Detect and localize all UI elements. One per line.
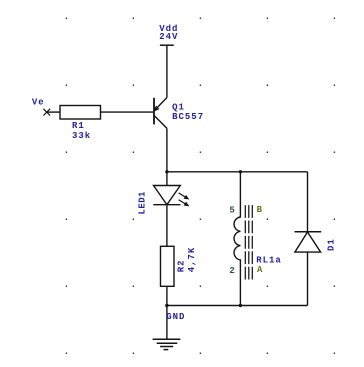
transistor Q1 xyxy=(154,98,167,129)
power symbol Vdd xyxy=(160,44,174,46)
port Ve xyxy=(43,109,50,116)
resistor R2 xyxy=(161,246,175,286)
svg-text:24V: 24V xyxy=(159,32,178,42)
node relay bottom junction xyxy=(239,304,242,307)
svg-text:4,7K: 4,7K xyxy=(187,247,197,273)
resistor R1 xyxy=(60,106,101,120)
node LED top junction xyxy=(165,170,168,173)
wire ground node to relay bottom xyxy=(167,305,241,307)
wire Q1 collector to node xyxy=(166,128,168,172)
relay coil RL1a xyxy=(234,172,252,306)
wire relay top to D1 xyxy=(240,171,307,173)
svg-text:2: 2 xyxy=(229,266,235,276)
wire R2 to ground node xyxy=(166,286,168,338)
wire node to relay top xyxy=(167,171,241,173)
wire relay bottom to D1 xyxy=(240,305,307,307)
node ground junction xyxy=(165,304,168,307)
wire LED1 to R2 xyxy=(166,205,168,247)
svg-text:Ve: Ve xyxy=(32,98,45,108)
wire R1 to Q1 base xyxy=(101,111,155,113)
wire Ve to R1 xyxy=(47,111,60,113)
wire D1 top branch xyxy=(307,172,309,232)
svg-text:33k: 33k xyxy=(72,131,91,141)
wire node to LED1 anode xyxy=(166,172,168,186)
diode D1 xyxy=(295,232,322,252)
LED LED1 xyxy=(153,186,188,206)
svg-text:R2: R2 xyxy=(177,259,187,272)
wire D1 bottom branch xyxy=(307,252,309,305)
wire Vdd to Q1 emitter xyxy=(166,45,168,97)
svg-text:D1: D1 xyxy=(327,238,337,251)
svg-text:LED1: LED1 xyxy=(138,191,148,215)
svg-text:A: A xyxy=(257,265,263,275)
svg-text:BC557: BC557 xyxy=(172,112,204,122)
svg-text:R1: R1 xyxy=(72,121,85,131)
node relay top junction xyxy=(239,170,242,173)
svg-text:Q1: Q1 xyxy=(172,103,185,113)
ground symbol xyxy=(153,339,181,349)
svg-text:B: B xyxy=(257,205,263,215)
svg-text:5: 5 xyxy=(229,206,235,216)
svg-text:GND: GND xyxy=(166,312,185,322)
